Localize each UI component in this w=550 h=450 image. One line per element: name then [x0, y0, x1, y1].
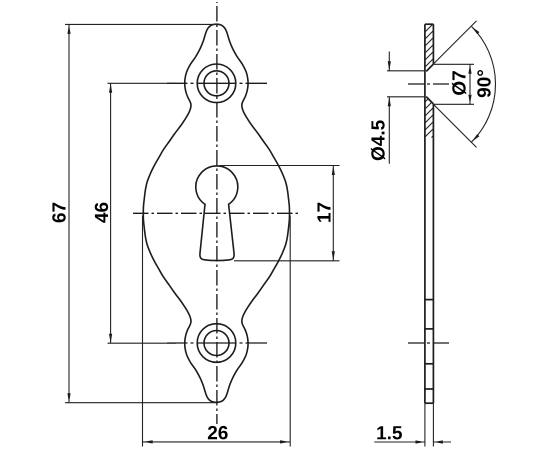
arrow 26 left	[143, 440, 153, 443]
top hole centerline	[167, 82, 267, 84]
top screw hole outer (countersink dia 7)	[197, 64, 236, 103]
bottom hole centerline	[167, 342, 267, 344]
arrow 90deg arc bottom	[472, 134, 480, 142]
ext line bottom of plate	[65, 402, 216, 404]
side plate left edge	[424, 24, 426, 403]
horizontal centerline plate	[133, 212, 299, 214]
ext line top of plate	[65, 23, 218, 25]
ext line keyhole top	[220, 165, 340, 167]
label 1.5	[377, 426, 402, 439]
ext line bottom hole center	[108, 342, 177, 344]
side plate right edge lower	[432, 104, 434, 403]
arrow 1.5 left	[416, 440, 426, 443]
arrow 17 bottom	[332, 251, 335, 260]
ext line keyhole bottom	[234, 260, 340, 262]
90deg ext line lower	[429, 99, 477, 147]
ext line countersink top	[434, 63, 474, 65]
label dia7	[452, 71, 466, 95]
arrow dia7 top	[468, 64, 471, 74]
label 90deg	[477, 70, 490, 97]
label 26	[208, 426, 228, 439]
ext line top hole center	[108, 82, 177, 84]
side plate bottom edge	[425, 402, 434, 404]
90deg arc	[472, 27, 496, 142]
section hatching	[300, 5, 550, 150]
ext line body left	[142, 216, 144, 447]
bottom screw hole inner	[204, 331, 229, 356]
ext line hole top left	[387, 70, 425, 72]
side bottom hole centerline	[408, 342, 451, 344]
keyhole	[196, 166, 238, 261]
edge line upper	[425, 299, 434, 301]
countersink cone upper	[426, 64, 433, 71]
ext line hole bottom left	[387, 96, 425, 98]
arrow 46 top	[109, 83, 112, 93]
bottom hole edge bottom	[425, 363, 434, 365]
bottom tip edge	[425, 388, 434, 390]
dim line dia4.5 lower	[388, 97, 390, 164]
side plate right edge upper	[432, 24, 434, 64]
dim line 26	[143, 441, 291, 443]
dim line 67	[68, 24, 70, 402]
side plate top edge	[425, 23, 434, 25]
countersink cone lower	[426, 97, 433, 104]
ext line thickness right	[432, 403, 434, 446]
arrow dia7 bottom	[468, 95, 471, 105]
arrow 17 top	[332, 166, 335, 176]
dim line 46	[110, 83, 112, 343]
90deg ext line upper	[429, 21, 477, 69]
arrow dia4.5 bottom	[388, 97, 391, 107]
arrow 26 right	[280, 440, 290, 443]
top screw hole inner (dia 4.5)	[204, 71, 229, 96]
dim line 1.5 left	[374, 441, 425, 443]
label 46	[95, 203, 108, 223]
arrow 67 top	[67, 24, 70, 34]
arrow 90deg arc top	[472, 27, 480, 35]
label 17	[317, 203, 330, 222]
label 67	[52, 203, 65, 223]
dim line 1.5 right	[433, 441, 451, 443]
bottom screw hole outer	[197, 324, 236, 363]
arrow 46 bottom	[109, 334, 112, 344]
bottom hole edge top	[425, 328, 434, 330]
dim line 17	[332, 166, 334, 261]
ext line thickness left	[424, 403, 426, 446]
ext line countersink bottom	[434, 103, 474, 105]
arrow 67 bottom	[67, 393, 70, 403]
label dia4.5	[371, 120, 385, 160]
arrow dia4.5 top	[388, 61, 391, 71]
plate outline	[143, 24, 289, 402]
ext line body right	[289, 216, 291, 447]
side top hole centerline	[408, 83, 449, 85]
arrow 1.5 right	[433, 440, 443, 443]
dim line dia7	[469, 64, 471, 104]
vertical centerline front view	[216, 2, 218, 424]
dim line dia4.5 upper	[388, 52, 390, 71]
